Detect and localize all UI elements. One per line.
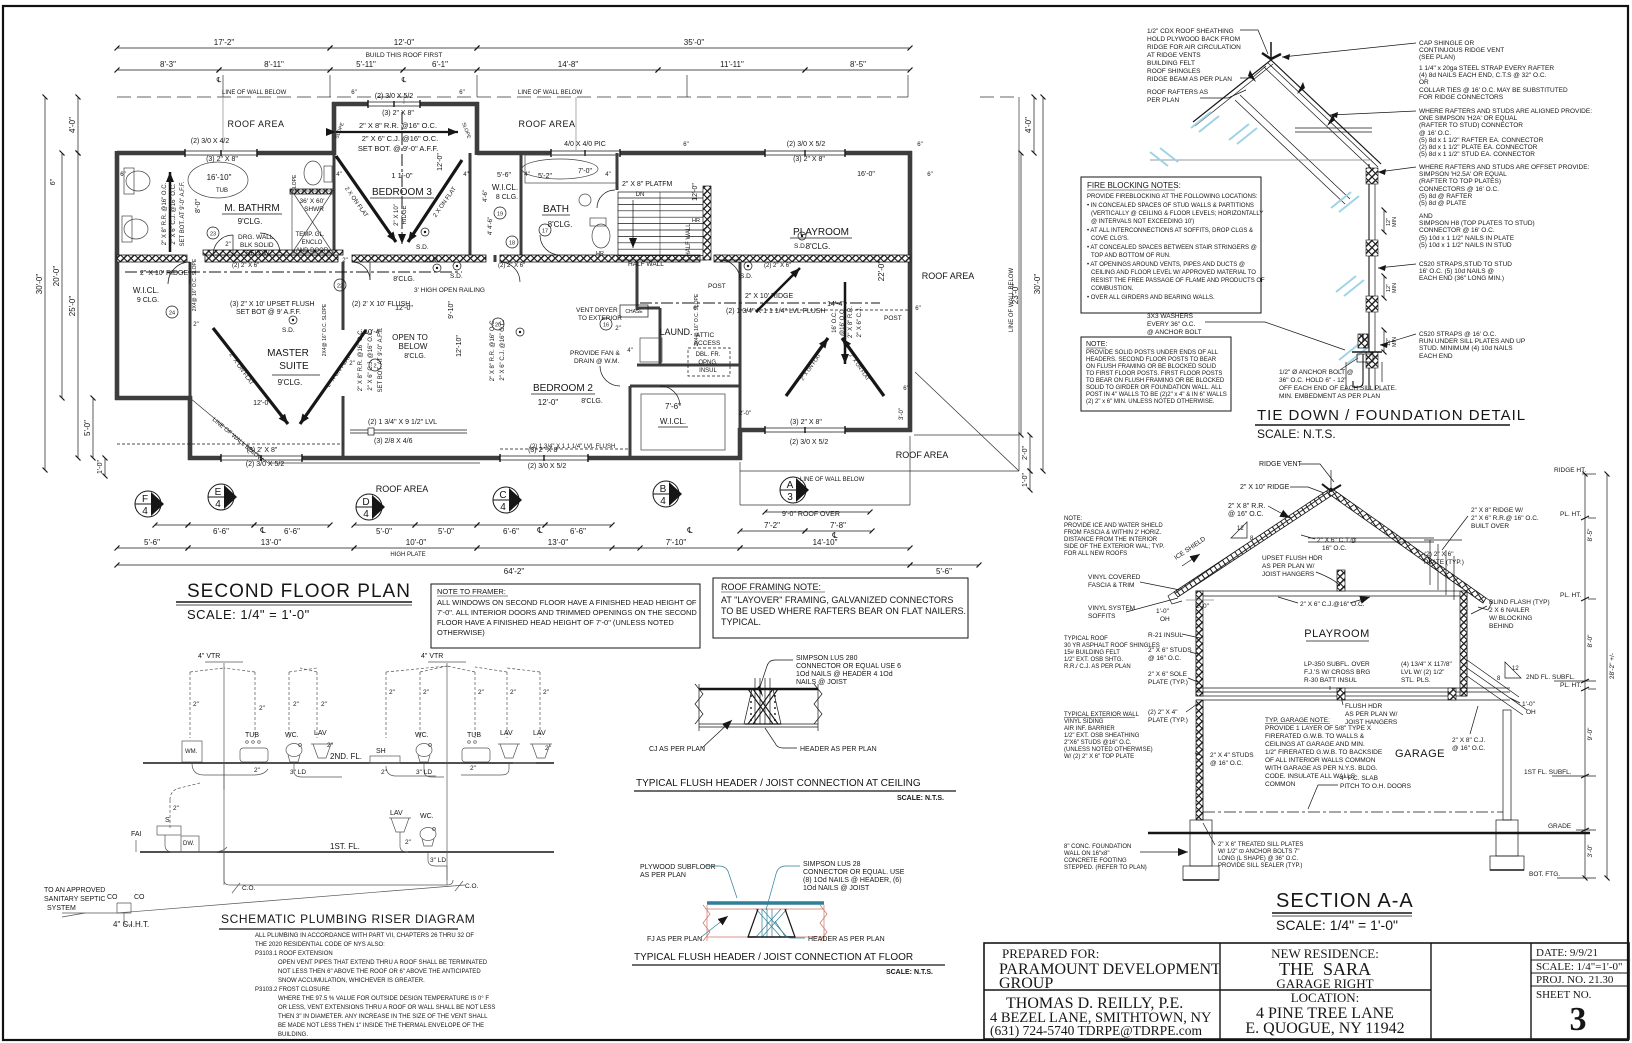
svg-text:(2) 1 3/4" X 1 1 1/4" LVL FLUS: (2) 1 3/4" X 1 1 1/4" LVL FLUSH	[530, 444, 615, 450]
svg-text:• AT OPENINGS AROUND VENTS, PI: • AT OPENINGS AROUND VENTS, PIPES AND DU…	[1087, 262, 1245, 268]
svg-text:ROOF AREA: ROOF AREA	[922, 271, 975, 281]
svg-text:RIDGE FOR AIR CIRCULATION: RIDGE FOR AIR CIRCULATION	[1147, 44, 1241, 51]
svg-text:SET BOT. @ 9'-0" A.F.F.: SET BOT. @ 9'-0" A.F.F.	[358, 144, 438, 153]
svg-text:4" VTR: 4" VTR	[198, 653, 220, 660]
svg-text:4": 4"	[627, 348, 632, 354]
svg-text:11'-11": 11'-11"	[720, 60, 744, 69]
svg-text:6": 6"	[903, 386, 908, 392]
svg-text:18: 18	[509, 241, 515, 247]
svg-text:4'-6": 4'-6"	[483, 190, 489, 202]
svg-text:SCALE: N.T.S.: SCALE: N.T.S.	[1257, 427, 1336, 441]
svg-text:1Od NAILS @ JOIST: 1Od NAILS @ JOIST	[803, 885, 870, 892]
svg-text:PREPARED FOR:: PREPARED FOR:	[1002, 946, 1099, 961]
svg-text:(631) 724-5740 TDRPE@TDRPE.com: (631) 724-5740 TDRPE@TDRPE.com	[990, 1023, 1203, 1038]
svg-text:CJ AS PER PLAN: CJ AS PER PLAN	[649, 746, 705, 753]
svg-text:PITCH TO O.H. DOORS: PITCH TO O.H. DOORS	[1340, 783, 1412, 790]
svg-text:RIDGE VENT: RIDGE VENT	[1259, 461, 1303, 468]
svg-text:2" X 6" C.J. @16" O.C.: 2" X 6" C.J. @16" O.C.	[362, 134, 438, 143]
svg-text:VINYL SIDING: VINYL SIDING	[1064, 719, 1104, 725]
svg-text:F.J.'S W/ CROSS BRG: F.J.'S W/ CROSS BRG	[1304, 669, 1370, 676]
svg-text:CEILING AND FLOOR LEVEL W/ APP: CEILING AND FLOOR LEVEL W/ APPROVED MATE…	[1091, 270, 1256, 276]
svg-text:DRG. WALL: DRG. WALL	[238, 234, 274, 241]
svg-text:PROVIDE FIREBLOCKING AT THE FO: PROVIDE FIREBLOCKING AT THE FOLLOWING LO…	[1087, 194, 1258, 200]
svg-text:PL. HT.: PL. HT.	[1560, 511, 1582, 518]
svg-text:1/2" CDX ROOF SHEATHING: 1/2" CDX ROOF SHEATHING	[1147, 28, 1234, 35]
svg-text:SCALE: 1/4" = 1'-0": SCALE: 1/4" = 1'-0"	[187, 607, 310, 622]
svg-text:4: 4	[660, 496, 666, 507]
svg-text:AT "LAYOVER" FRAMING, GALVANIZ: AT "LAYOVER" FRAMING, GALVANIZED CONNECT…	[721, 595, 953, 605]
svg-text:HEADER AS PER PLAN: HEADER AS PER PLAN	[808, 936, 885, 943]
svg-text:S.D.: S.D.	[740, 273, 753, 280]
svg-text:CAP SHINGLE OR: CAP SHINGLE OR	[1419, 40, 1474, 47]
svg-text:2" X 6" R.R.@ 16" O.C.: 2" X 6" R.R.@ 16" O.C.	[1471, 515, 1539, 522]
svg-text:CO: CO	[107, 894, 118, 901]
svg-text:2": 2"	[225, 242, 230, 248]
svg-text:M. BATHRM: M. BATHRM	[224, 203, 279, 214]
svg-text:OF ALL INTERIOR WALLS COMMON: OF ALL INTERIOR WALLS COMMON	[1265, 757, 1376, 764]
svg-text:BEDROOM 2: BEDROOM 2	[533, 383, 593, 394]
svg-text:4" VTR: 4" VTR	[421, 653, 443, 660]
svg-text:17'-2": 17'-2"	[214, 38, 235, 47]
svg-text:24: 24	[169, 311, 175, 317]
svg-text:PROVIDE 1 LAYER OF 5/8" TYPE X: PROVIDE 1 LAYER OF 5/8" TYPE X	[1265, 725, 1372, 732]
svg-text:BUILD THIS ROOF FIRST: BUILD THIS ROOF FIRST	[366, 52, 443, 59]
svg-text:6": 6"	[50, 178, 57, 185]
svg-text:(UNLESS NOTED OTHERWISE): (UNLESS NOTED OTHERWISE)	[1064, 747, 1153, 753]
svg-text:7'-0". ALL INTERIOR DOORS AND: 7'-0". ALL INTERIOR DOORS AND TRIMMED OP…	[437, 608, 697, 617]
svg-text:(VERTICALLY @ CEILING & FLOOR: (VERTICALLY @ CEILING & FLOOR LEVELS; HO…	[1091, 211, 1263, 217]
svg-text:2X4@ 16" O.C. SLOPE: 2X4@ 16" O.C. SLOPE	[322, 303, 328, 356]
svg-text:EACH END (36" LONG MIN.): EACH END (36" LONG MIN.)	[1419, 275, 1504, 282]
svg-text:DATE: 9/9/21: DATE: 9/9/21	[1536, 947, 1598, 959]
svg-text:3: 3	[787, 492, 793, 503]
svg-text:TEMP. GL.: TEMP. GL.	[296, 232, 325, 238]
svg-text:4" C.I.H.T.: 4" C.I.H.T.	[113, 920, 149, 929]
svg-text:CONNECTOR @ 16' O.C.: CONNECTOR @ 16' O.C.	[1419, 227, 1495, 234]
svg-text:SUITE: SUITE	[279, 361, 309, 372]
svg-text:6": 6"	[120, 172, 125, 178]
svg-text:2" X 8" RIDGE W/: 2" X 8" RIDGE W/	[1471, 507, 1523, 514]
svg-text:THE 2020 RESIDENTIAL CODE OF N: THE 2020 RESIDENTIAL CODE OF NYS ALSO:	[255, 942, 385, 948]
svg-text:PLATE (TYP.): PLATE (TYP.)	[1148, 679, 1188, 686]
svg-text:SLOPE: SLOPE	[292, 174, 298, 191]
svg-text:DN: DN	[636, 192, 645, 198]
svg-text:NOTE:: NOTE:	[1064, 516, 1083, 522]
svg-text:ENCLO: ENCLO	[302, 240, 323, 246]
svg-text:FJ AS PER PLAN: FJ AS PER PLAN	[647, 936, 702, 943]
svg-text:CONCRETE FOOTING: CONCRETE FOOTING	[1064, 858, 1127, 864]
svg-text:(2) 3/0 X 5/2: (2) 3/0 X 5/2	[787, 141, 826, 148]
svg-text:POST: POST	[884, 315, 902, 322]
svg-text:EACH END: EACH END	[1419, 353, 1453, 360]
svg-text:1ST FL. SUBFL.: 1ST FL. SUBFL.	[1524, 769, 1572, 776]
svg-text:HEADER AS PER PLAN: HEADER AS PER PLAN	[800, 746, 877, 753]
svg-text:LONG (L SHAPE) @ 36" O.C.: LONG (L SHAPE) @ 36" O.C.	[1218, 856, 1298, 862]
svg-text:2": 2"	[545, 745, 552, 752]
svg-text:(5) 8d x 1 1/2" STUD EA. CONNE: (5) 8d x 1 1/2" STUD EA. CONNECTOR	[1419, 151, 1535, 158]
svg-text:MIN: MIN	[1392, 337, 1398, 347]
svg-text:16: 16	[603, 323, 609, 329]
svg-text:7'-0": 7'-0"	[578, 168, 592, 175]
svg-text:12'-0": 12'-0"	[394, 38, 415, 47]
svg-text:TYPICAL FLUSH HEADER / JOIST C: TYPICAL FLUSH HEADER / JOIST CONNECTION …	[634, 952, 913, 963]
svg-text:MASTER: MASTER	[267, 348, 309, 359]
svg-text:2" X 6" SOLE: 2" X 6" SOLE	[1148, 671, 1188, 678]
svg-text:13'-0": 13'-0"	[548, 538, 569, 547]
svg-text:13'-0": 13'-0"	[261, 538, 282, 547]
svg-text:℄: ℄	[401, 77, 407, 84]
svg-text:RIDGE BEAM AS PER PLAN: RIDGE BEAM AS PER PLAN	[1147, 76, 1232, 83]
svg-text:HR: HR	[596, 251, 604, 257]
svg-text:ON FLUSH FRAMING OR BE BLOCKED: ON FLUSH FRAMING OR BE BLOCKED SOLID	[1086, 364, 1217, 370]
svg-text:PLYWOOD SUBFLOOR: PLYWOOD SUBFLOOR	[640, 864, 716, 871]
svg-text:5'-6": 5'-6"	[936, 567, 952, 576]
svg-text:19: 19	[497, 212, 503, 218]
svg-text:2" X 8" R.R. @16" O.C.: 2" X 8" R.R. @16" O.C.	[358, 328, 364, 391]
svg-text:5'-6": 5'-6"	[144, 538, 160, 547]
svg-text:TIE DOWN / FOUNDATION DETAIL: TIE DOWN / FOUNDATION DETAIL	[1257, 407, 1526, 424]
svg-text:2" X 8" R.R. @16" O.C.: 2" X 8" R.R. @16" O.C.	[490, 318, 496, 381]
svg-text:(SEE PLAN): (SEE PLAN)	[1419, 54, 1455, 61]
svg-text:1'-0": 1'-0"	[1522, 701, 1536, 708]
svg-text:8'-3": 8'-3"	[160, 60, 176, 69]
svg-text:8" CONC. FOUNDATION: 8" CONC. FOUNDATION	[1064, 844, 1131, 850]
svg-text:ALL WINDOWS ON SECOND FLOOR HA: ALL WINDOWS ON SECOND FLOOR HAVE A FINIS…	[437, 598, 697, 607]
svg-text:(4) 8d NAILS EACH END, C.T.S @: (4) 8d NAILS EACH END, C.T.S @ 32" O.C.	[1419, 72, 1547, 79]
svg-text:2": 2"	[615, 326, 620, 332]
svg-text:2": 2"	[321, 701, 328, 708]
svg-text:LINE OF WALL BELOW: LINE OF WALL BELOW	[1009, 268, 1015, 333]
svg-text:E. QUOGUE, NY 11942: E. QUOGUE, NY 11942	[1245, 1020, 1404, 1037]
svg-text:LINE OF WALL BELOW: LINE OF WALL BELOW	[222, 90, 287, 96]
svg-text:2" X 8" R.R.: 2" X 8" R.R.	[848, 306, 854, 338]
svg-text:4": 4"	[336, 172, 341, 178]
svg-text:BEDROOM 3: BEDROOM 3	[372, 187, 432, 198]
svg-text:2": 2"	[510, 689, 517, 696]
svg-text:WHERE RAFTERS AND STUDS ARE OF: WHERE RAFTERS AND STUDS ARE OFFSET PROVI…	[1419, 164, 1590, 171]
svg-text:2": 2"	[423, 689, 430, 696]
svg-text:ROOF AREA: ROOF AREA	[518, 119, 575, 129]
svg-text:TO BEAR ON FLUSH FRAMING OR BE: TO BEAR ON FLUSH FRAMING OR BE BLOCKED	[1086, 378, 1225, 384]
svg-text:4/0 X 4/0 PIC: 4/0 X 4/0 PIC	[564, 141, 606, 148]
svg-text:2ND. FL.: 2ND. FL.	[330, 752, 362, 761]
svg-text:(5) 8d x 1 1/2" RAFTER EA. CON: (5) 8d x 1 1/2" RAFTER EA. CONNECTOR	[1419, 137, 1544, 144]
svg-text:3X3 WASHERS: 3X3 WASHERS	[1147, 313, 1194, 320]
svg-text:SET BOT. AT 9'-0" A.F.F.: SET BOT. AT 9'-0" A.F.F.	[378, 327, 384, 392]
svg-text:2": 2"	[470, 765, 477, 772]
svg-text:PROVIDE FAN &: PROVIDE FAN &	[570, 350, 621, 357]
svg-text:36" O.C. HOLD 6" - 12": 36" O.C. HOLD 6" - 12"	[1279, 377, 1347, 384]
svg-text:S.D.: S.D.	[794, 243, 807, 250]
svg-text:• OVER ALL GIRDERS AND BEARING: • OVER ALL GIRDERS AND BEARING WALLS.	[1087, 295, 1215, 301]
svg-text:RESIST THE FREE PASSAGE OF FLA: RESIST THE FREE PASSAGE OF FLAME AND PRO…	[1091, 278, 1265, 284]
svg-text:S.D.: S.D.	[450, 273, 463, 280]
svg-text:LAUND.: LAUND.	[659, 327, 692, 337]
svg-text:(2) 2" X 6": (2) 2" X 6"	[764, 263, 791, 269]
svg-text:4": 4"	[463, 172, 468, 178]
svg-text:FOR RIDGE CONNECTORS: FOR RIDGE CONNECTORS	[1419, 94, 1504, 101]
svg-text:6": 6"	[683, 142, 688, 148]
svg-text:FLOOR HAVE A FINISHED HEAD HEI: FLOOR HAVE A FINISHED HEAD HEIGHT OF 7'-…	[437, 618, 674, 627]
svg-text:22: 22	[337, 284, 343, 290]
svg-text:30 YR ASPHALT ROOF SHINGLES: 30 YR ASPHALT ROOF SHINGLES	[1064, 643, 1160, 649]
svg-text:OR: OR	[1419, 79, 1429, 86]
svg-text:6": 6"	[351, 90, 356, 96]
svg-text:MIN: MIN	[1392, 283, 1398, 293]
svg-text:(2) 2" X 4": (2) 2" X 4"	[1148, 709, 1178, 716]
svg-text:BUILT OVER: BUILT OVER	[1471, 523, 1509, 530]
svg-text:ROOF RAFTERS AS: ROOF RAFTERS AS	[1147, 89, 1209, 96]
svg-text:2" X 4" STUDS: 2" X 4" STUDS	[1210, 752, 1254, 759]
svg-text:6": 6"	[459, 90, 464, 96]
svg-text:30'-0": 30'-0"	[1033, 274, 1042, 295]
svg-text:9 CLG.: 9 CLG.	[137, 297, 159, 304]
svg-text:MIN. EMBEDMENT AS PER PLAN: MIN. EMBEDMENT AS PER PLAN	[1279, 393, 1380, 400]
svg-text:LAV: LAV	[390, 810, 403, 817]
svg-text:2" X 10" RIDGE: 2" X 10" RIDGE	[1240, 484, 1290, 491]
svg-text:WHERE THE 97.5 % VALUE FOR OUT: WHERE THE 97.5 % VALUE FOR OUTSIDE DESIG…	[278, 996, 489, 1002]
svg-text:TYP. GARAGE NOTE:: TYP. GARAGE NOTE:	[1265, 717, 1330, 724]
svg-text:FROM FASCIA & WITHIN 2' HORIZ.: FROM FASCIA & WITHIN 2' HORIZ.	[1064, 530, 1161, 536]
svg-text:NAILS @ JOIST: NAILS @ JOIST	[796, 679, 848, 686]
svg-text:PROJ. NO. 21.30: PROJ. NO. 21.30	[1536, 974, 1614, 986]
svg-text:1/2" EXT. OSB SHTG.: 1/2" EXT. OSB SHTG.	[1064, 657, 1123, 663]
svg-text:12'-0": 12'-0"	[538, 398, 559, 407]
svg-text:3" LD: 3" LD	[290, 769, 306, 776]
svg-text:SECOND FLOOR PLAN: SECOND FLOOR PLAN	[187, 581, 411, 602]
svg-text:TYPICAL.: TYPICAL.	[721, 617, 761, 627]
svg-text:CEILINGS AT GARAGE AND MIN.: CEILINGS AT GARAGE AND MIN.	[1265, 741, 1365, 748]
svg-text:HEADERS. SECOND FLOOR POSTS TO: HEADERS. SECOND FLOOR POSTS TO BEAR	[1086, 357, 1217, 363]
svg-text:12: 12	[1512, 666, 1519, 672]
svg-text:WITH GARAGE AS PER N.Y.S. BLDG: WITH GARAGE AS PER N.Y.S. BLDG.	[1265, 765, 1378, 772]
svg-text:12'-0": 12'-0"	[253, 400, 271, 407]
svg-text:INSUL: INSUL	[699, 368, 717, 374]
svg-text:TUB: TUB	[467, 732, 481, 739]
svg-text:PLATE (TYP.): PLATE (TYP.)	[1148, 717, 1188, 724]
svg-text:BE MADE NOT LESS THEN 1" INSID: BE MADE NOT LESS THEN 1" INSIDE THE THER…	[278, 1023, 484, 1029]
svg-text:1/2" EXT. OSB SHEATHING: 1/2" EXT. OSB SHEATHING	[1064, 733, 1140, 739]
svg-text:5'-11": 5'-11"	[356, 60, 376, 69]
svg-text:10'-0": 10'-0"	[406, 538, 427, 547]
svg-text:BUILDING.: BUILDING.	[278, 1032, 308, 1038]
svg-text:6'-6": 6'-6"	[284, 527, 300, 536]
svg-text:SCALE: N.T.S.: SCALE: N.T.S.	[886, 969, 933, 976]
svg-text:2" X 6" C.T.@: 2" X 6" C.T.@	[1317, 537, 1357, 544]
svg-text:AIR INF. BARRIER: AIR INF. BARRIER	[1064, 726, 1115, 732]
svg-text:2" X 6" TREATED SILL PLATES: 2" X 6" TREATED SILL PLATES	[1218, 842, 1303, 848]
svg-text:10'-4": 10'-4"	[364, 329, 382, 336]
svg-text:TO EXTERIOR: TO EXTERIOR	[578, 315, 622, 322]
svg-text:6'-1": 6'-1"	[432, 60, 448, 69]
svg-text:(4) 13/4" X 117/8": (4) 13/4" X 117/8"	[1401, 661, 1452, 668]
svg-text:2": 2"	[193, 322, 198, 328]
svg-text:SANITARY SEPTIC: SANITARY SEPTIC	[44, 896, 105, 903]
svg-text:HOLD PLYWOOD BACK FROM: HOLD PLYWOOD BACK FROM	[1147, 36, 1240, 43]
svg-text:W.I.CL.: W.I.CL.	[133, 286, 159, 295]
svg-text:OR LESS, VENT EXTENSIONS THRU: OR LESS, VENT EXTENSIONS THRU A ROOF OR …	[278, 1005, 495, 1011]
svg-text:AS PER PLAN: AS PER PLAN	[640, 872, 686, 879]
svg-text:RIDGE HT.: RIDGE HT.	[1554, 467, 1586, 474]
svg-text:D: D	[362, 497, 369, 508]
svg-text:W.I.CL.: W.I.CL.	[660, 417, 686, 426]
svg-text:12'-0": 12'-0"	[692, 183, 699, 201]
svg-text:ROOF AREA: ROOF AREA	[227, 119, 284, 129]
svg-text:7'-10": 7'-10"	[666, 538, 687, 547]
svg-text:3' HIGH OPEN RAILING: 3' HIGH OPEN RAILING	[414, 287, 485, 294]
svg-text:BLIND FLASH (TYP): BLIND FLASH (TYP)	[1489, 599, 1550, 606]
svg-text:(3) 2" X 8": (3) 2" X 8"	[790, 419, 822, 426]
svg-text:POST: POST	[708, 283, 726, 290]
svg-text:R-30 BATT INSUL: R-30 BATT INSUL	[1304, 677, 1357, 684]
svg-text:LAV: LAV	[314, 730, 327, 737]
svg-text:2" X 10' RIDGE: 2" X 10' RIDGE	[745, 293, 794, 300]
svg-text:TO FIRST FLOOR POSTS. FIRST F: TO FIRST FLOOR POSTS. FIRST FLOOR POSTS	[1086, 371, 1222, 377]
svg-text:2'-0": 2'-0"	[1196, 603, 1210, 610]
svg-text:BELOW: BELOW	[246, 250, 270, 257]
svg-text:4: 4	[142, 506, 148, 517]
svg-text:R.R./ C.J. AS PER PLAN: R.R./ C.J. AS PER PLAN	[1064, 664, 1131, 670]
svg-text:(RAFTER TO STUD) CONNECTOR: (RAFTER TO STUD) CONNECTOR	[1419, 122, 1523, 129]
svg-text:7'-6": 7'-6"	[665, 402, 681, 411]
svg-text:LAV: LAV	[500, 730, 513, 737]
svg-text:(2) 2" x 6" MIN. UNLESS NOTED: (2) 2" x 6" MIN. UNLESS NOTED OTHERWISE.	[1086, 399, 1215, 405]
svg-text:FIRERATED G.W.B. TO WALLS &: FIRERATED G.W.B. TO WALLS &	[1265, 733, 1365, 740]
svg-text:COMBUSTION.: COMBUSTION.	[1091, 286, 1134, 292]
svg-text:S.D.: S.D.	[416, 244, 429, 251]
svg-text:ROOF AREA: ROOF AREA	[896, 450, 949, 460]
svg-text:1'-0": 1'-0"	[97, 460, 104, 474]
svg-text:1 1'-0": 1 1'-0"	[391, 171, 413, 180]
svg-text:SIMPSON H8 (TOP PLATES TO STUD: SIMPSON H8 (TOP PLATES TO STUD)	[1419, 220, 1535, 227]
svg-text:DBL. FR.: DBL. FR.	[696, 352, 721, 358]
svg-text:@16' O.C.: @16' O.C.	[840, 308, 846, 336]
svg-text:2X4@ 16" O.C. SLOPE: 2X4@ 16" O.C. SLOPE	[192, 258, 198, 311]
svg-text:8 CLG.: 8 CLG.	[496, 194, 518, 201]
svg-text:12'-10": 12'-10"	[456, 335, 463, 357]
svg-text:22'-0": 22'-0"	[877, 261, 886, 282]
svg-text:2": 2"	[342, 258, 347, 264]
svg-text:GRADE: GRADE	[1548, 823, 1572, 830]
svg-text:2X4@ 16" O.C. SLOPE: 2X4@ 16" O.C. SLOPE	[694, 293, 700, 346]
svg-text:F: F	[142, 494, 148, 505]
svg-text:23: 23	[210, 232, 216, 238]
svg-text:1/2" FIRERATED G.W.B. TO BACKS: 1/2" FIRERATED G.W.B. TO BACKSIDE	[1265, 749, 1383, 756]
svg-text:(3) 2" X 8": (3) 2" X 8"	[206, 156, 238, 163]
svg-text:@ ANCHOR BOLT: @ ANCHOR BOLT	[1147, 329, 1202, 336]
svg-text:SET BOT. AT 9'-0" A.F.F.: SET BOT. AT 9'-0" A.F.F.	[180, 181, 186, 246]
svg-text:12: 12	[1237, 526, 1244, 532]
svg-text:@ 16" O.C.: @ 16" O.C.	[1210, 760, 1243, 767]
svg-text:C520 STRAPS @ 16' O.C.: C520 STRAPS @ 16' O.C.	[1419, 331, 1496, 338]
svg-text:FASCIA & TRIM: FASCIA & TRIM	[1088, 582, 1134, 589]
svg-text:(2) 3/0 X 5/2: (2) 3/0 X 5/2	[375, 93, 414, 100]
svg-text:C520 STRAPS,STUD TO STUD: C520 STRAPS,STUD TO STUD	[1419, 261, 1512, 268]
svg-text:2": 2"	[259, 705, 266, 712]
svg-text:OFF EACH END OF EACH SILL PLAT: OFF EACH END OF EACH SILL PLATE.	[1279, 385, 1397, 392]
svg-text:(2) 8d x 1 1/2" PLATE EA. CONN: (2) 8d x 1 1/2" PLATE EA. CONNECTOR	[1419, 144, 1538, 151]
svg-text:2": 2"	[478, 689, 485, 696]
svg-text:• IN CONCEALED SPACES OF STUD: • IN CONCEALED SPACES OF STUD WALLS & PA…	[1087, 203, 1254, 209]
svg-text:P3103.1 ROOF EXTENSION: P3103.1 ROOF EXTENSION	[255, 951, 333, 957]
svg-text:1/2" Ø ANCHOR BOLT @: 1/2" Ø ANCHOR BOLT @	[1279, 369, 1354, 376]
svg-text:16'-0": 16'-0"	[857, 171, 875, 178]
svg-text:16'-10": 16'-10"	[207, 173, 232, 182]
svg-text:• AT CONCEALED SPACES BETWEEN: • AT CONCEALED SPACES BETWEEN STAIR STRI…	[1087, 245, 1257, 251]
svg-text:SIMPSON 'H2.5A' OR EQUAL: SIMPSON 'H2.5A' OR EQUAL	[1419, 171, 1507, 178]
svg-text:9'CLG.: 9'CLG.	[278, 378, 303, 387]
svg-text:OH: OH	[1526, 709, 1536, 716]
svg-text:CONNECTOR OR EQUAL. USE: CONNECTOR OR EQUAL. USE	[803, 869, 905, 876]
svg-text:3'-0": 3'-0"	[899, 408, 905, 420]
svg-text:28'-2" +/-: 28'-2" +/-	[1609, 653, 1616, 679]
svg-text:2" X 6" C.J. @16" O.C.: 2" X 6" C.J. @16" O.C.	[500, 319, 506, 380]
svg-text:2ND FL. SUBFL.: 2ND FL. SUBFL.	[1526, 674, 1575, 681]
svg-text:2" X 6" C.J.@16" O.C.: 2" X 6" C.J.@16" O.C.	[1300, 601, 1365, 608]
svg-text:(2) 1 3/4" X 9 1/2" LVL: (2) 1 3/4" X 9 1/2" LVL	[368, 419, 437, 426]
svg-text:4" P.C. SLAB: 4" P.C. SLAB	[1340, 775, 1378, 782]
svg-text:W/ BLOCKING: W/ BLOCKING	[1489, 615, 1532, 622]
svg-text:(5) 8d @ RAFTER: (5) 8d @ RAFTER	[1419, 193, 1472, 200]
svg-text:(2) 3/0 X 4/2: (2) 3/0 X 4/2	[191, 138, 230, 145]
svg-text:20'-0": 20'-0"	[52, 266, 61, 287]
svg-text:8'-11": 8'-11"	[264, 60, 284, 69]
svg-text:3'-0": 3'-0"	[1587, 844, 1594, 858]
svg-text:LP-350 SUBFL. OVER: LP-350 SUBFL. OVER	[1304, 661, 1370, 668]
svg-text:TO BE USED WHERE RAFTERS BEAR: TO BE USED WHERE RAFTERS BEAR ON FLAT NA…	[721, 606, 966, 616]
svg-text:1'-0": 1'-0"	[1156, 608, 1170, 615]
svg-text:SIDE OF THE EXTERIOR WAL; TYP.: SIDE OF THE EXTERIOR WAL; TYP.	[1064, 544, 1164, 550]
svg-text:GROUP: GROUP	[999, 975, 1053, 992]
svg-text:CO: CO	[134, 894, 145, 901]
svg-text:BUILDING FELT: BUILDING FELT	[1147, 60, 1195, 67]
svg-text:C.M.: C.M.	[426, 257, 440, 264]
svg-text:ALL PLUMBING IN ACCORDANCE WIT: ALL PLUMBING IN ACCORDANCE WITH PART VII…	[255, 933, 474, 939]
svg-text:(2) 3/0 X 5/2: (2) 3/0 X 5/2	[528, 463, 567, 470]
svg-text:℄: ℄	[831, 531, 838, 540]
svg-text:PROVIDE SILL SEALER (TYP.): PROVIDE SILL SEALER (TYP.)	[1218, 863, 1302, 869]
svg-text:UPSET FLUSH HDR: UPSET FLUSH HDR	[1262, 555, 1323, 562]
svg-text:R-21 INSUL: R-21 INSUL	[1148, 632, 1183, 639]
svg-text:LAV: LAV	[533, 730, 546, 737]
svg-text:@ INTERVALS NOT EXCEEDING 10'): @ INTERVALS NOT EXCEEDING 10')	[1091, 219, 1194, 225]
svg-text:(2) 3/0 X 5/2: (2) 3/0 X 5/2	[790, 439, 829, 446]
svg-text:TUB: TUB	[216, 188, 228, 194]
svg-text:VINYL SYSTEM: VINYL SYSTEM	[1088, 605, 1135, 612]
svg-text:OPEN TO: OPEN TO	[392, 333, 428, 342]
svg-text:STL. PLS.: STL. PLS.	[1401, 677, 1431, 684]
svg-text:9'-0": 9'-0"	[1587, 727, 1594, 741]
svg-text:W.I.CL.: W.I.CL.	[492, 183, 518, 192]
svg-text:3: 3	[1570, 1001, 1587, 1038]
svg-text:GARAGE RIGHT: GARAGE RIGHT	[1276, 976, 1373, 991]
svg-text:6": 6"	[917, 142, 922, 148]
svg-text:14'-8": 14'-8"	[558, 60, 579, 69]
svg-text:TOP AND BOTTOM OF RUN.: TOP AND BOTTOM OF RUN.	[1091, 253, 1171, 259]
svg-text:MIN: MIN	[1392, 217, 1398, 227]
svg-text:5'-0": 5'-0"	[83, 420, 92, 436]
svg-text:4": 4"	[605, 172, 610, 178]
svg-text:LINE OF WALL BELOW: LINE OF WALL BELOW	[518, 90, 583, 96]
svg-text:OPEN VENT PIPES THAT EXTEND TH: OPEN VENT PIPES THAT EXTEND THRU A ROOF …	[278, 960, 488, 966]
svg-text:℄: ℄	[536, 526, 543, 535]
svg-text:PL. HT.: PL. HT.	[1560, 682, 1582, 689]
svg-text:FAI: FAI	[131, 831, 142, 838]
svg-text:5'-0": 5'-0"	[376, 527, 392, 536]
svg-text:2" X 8" PLATFM: 2" X 8" PLATFM	[622, 181, 673, 188]
svg-text:AND DOOR: AND DOOR	[296, 248, 329, 254]
svg-text:8'CLG.: 8'CLG.	[548, 220, 573, 229]
